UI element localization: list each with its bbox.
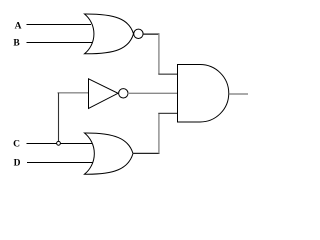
node junction on wire C (57, 141, 61, 145)
svg-text:B: B (13, 38, 20, 48)
wire OR vertical rise (158, 113, 160, 153)
svg-text:D: D (14, 159, 21, 169)
NOR gate U1 body (85, 14, 134, 54)
wire into AND top input (158, 73, 177, 75)
inverter U2 triangle (89, 79, 119, 109)
wire inverter input vertical drop to node (58, 93, 60, 142)
wire C (27, 143, 94, 145)
wire D (27, 162, 93, 164)
wire AND output (229, 93, 248, 95)
OR gate U3 body (85, 133, 134, 174)
wire B (27, 42, 93, 44)
NOR gate U1 output bubble (134, 29, 143, 38)
wire into AND bottom input (158, 112, 177, 114)
inverter U2 output bubble (119, 89, 128, 98)
wire NOR vertical drop (158, 34, 160, 74)
AND gate U4 body (178, 65, 229, 123)
svg-text:C: C (13, 139, 20, 149)
svg-text:A: A (15, 22, 22, 32)
wire inverter output to AND middle input (128, 92, 178, 94)
wire NOR output to bend (143, 33, 159, 35)
wire A (27, 24, 92, 26)
wire inverter input horizontal (58, 92, 89, 94)
wire OR output to bend (133, 152, 160, 154)
